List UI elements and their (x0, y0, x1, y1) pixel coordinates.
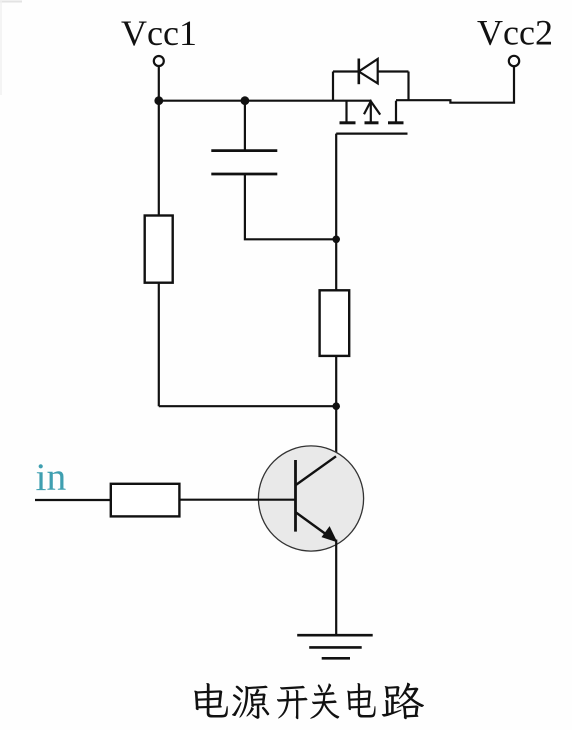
wire bottom rail to node D (159, 405, 336, 407)
MOSFET Q2 gate wire (335, 134, 337, 240)
ground (297, 635, 373, 658)
svg-text:Vcc2: Vcc2 (477, 13, 553, 53)
wire Q2 drain to Vcc2 (396, 66, 514, 102)
power terminal Vcc2 (477, 13, 553, 67)
node D junction (332, 402, 340, 410)
wire C1 to node C (245, 174, 336, 239)
wire in to resistor R3 (35, 499, 111, 501)
wire R1 to bottom rail (158, 283, 160, 407)
svg-text:in: in (36, 455, 67, 499)
transistor Q1 body circle (258, 446, 363, 551)
svg-text:Vcc1: Vcc1 (121, 13, 197, 53)
wire node B to capacitor C1 (244, 101, 246, 151)
title text 电源开关电路 (194, 683, 424, 720)
power terminal Vcc1 (121, 13, 197, 66)
wire node C to resistor R2 (335, 239, 337, 290)
wire R2 to node D (335, 356, 337, 406)
transistor Q1 symbol (296, 456, 337, 541)
wire Vcc1 to node A (158, 66, 160, 101)
scan artifact top-left (0, 1, 22, 3)
wire node A to resistor R1 (158, 101, 160, 216)
capacitor C1 (211, 151, 277, 174)
resistor R2 (320, 290, 350, 356)
wire Q1 emitter to ground (335, 540, 337, 636)
wire node B to MOSFET source (245, 100, 372, 102)
resistor R3 (111, 484, 180, 517)
node A junction (154, 96, 163, 105)
wire node D to transistor collector (335, 406, 337, 456)
MOSFET Q2 p-channel (336, 101, 407, 134)
node C junction (332, 236, 340, 244)
resistor R1 (145, 216, 173, 283)
wire node A to node B (159, 100, 245, 102)
body diode D1 of Q2 (333, 59, 409, 101)
wire R3 to Q1 base (179, 499, 295, 501)
node B junction (241, 96, 250, 105)
